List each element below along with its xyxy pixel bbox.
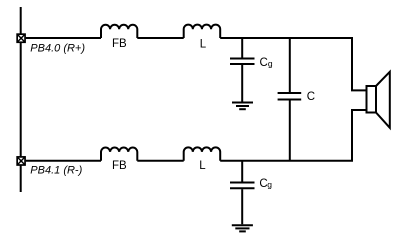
- svg-text:L: L: [199, 160, 206, 172]
- svg-text:PB4.0 (R+): PB4.0 (R+): [30, 43, 85, 55]
- svg-text:g: g: [267, 179, 272, 189]
- svg-text:g: g: [268, 58, 273, 68]
- svg-text:C: C: [307, 91, 315, 103]
- svg-text:FB: FB: [112, 38, 127, 50]
- svg-text:L: L: [200, 38, 207, 50]
- svg-text:C: C: [260, 57, 268, 69]
- svg-text:PB4.1 (R-): PB4.1 (R-): [30, 165, 82, 177]
- svg-text:FB: FB: [112, 160, 127, 172]
